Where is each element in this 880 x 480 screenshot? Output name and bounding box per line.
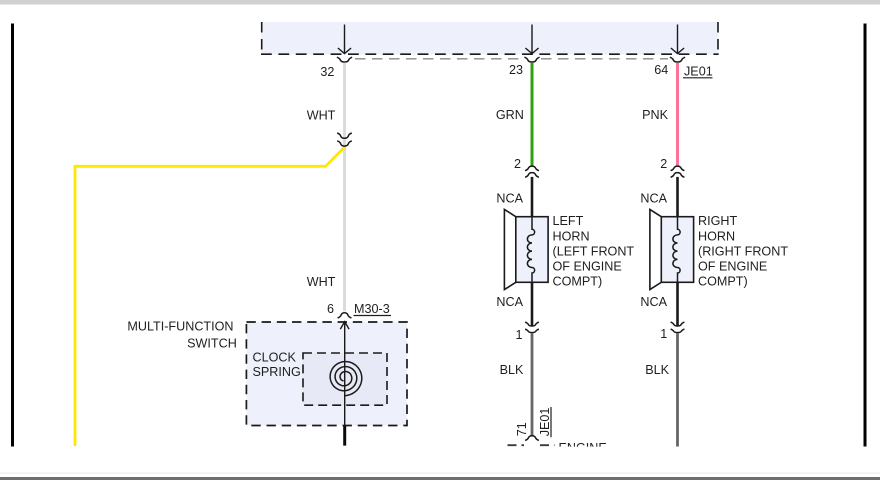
svg-text:PNK: PNK [642,108,668,122]
svg-text:NCA: NCA [496,295,523,309]
svg-text:ENGINE: ENGINE [559,441,607,455]
svg-text:NCA: NCA [496,191,523,205]
svg-text:71: 71 [515,422,529,436]
svg-text:BLK: BLK [500,363,524,377]
svg-text:BLK: BLK [645,363,669,377]
svg-text:M30-3: M30-3 [354,302,390,316]
svg-text:NCA: NCA [640,191,667,205]
svg-text:JE01: JE01 [684,65,713,79]
svg-text:(RIGHT FRONT: (RIGHT FRONT [698,244,788,258]
svg-text:MULTI-FUNCTION: MULTI-FUNCTION [127,320,233,334]
svg-text:64: 64 [654,63,668,77]
svg-text:HORN: HORN [698,229,735,243]
svg-text:SPRING: SPRING [253,365,301,379]
svg-text:23: 23 [509,63,523,77]
svg-text:WHT: WHT [307,109,336,123]
svg-text:1: 1 [515,328,522,342]
svg-text:OF ENGINE: OF ENGINE [553,260,622,274]
svg-text:COMPT): COMPT) [553,275,603,289]
svg-text:COMPT): COMPT) [698,275,748,289]
svg-text:2: 2 [660,157,667,171]
svg-text:(LEFT FRONT: (LEFT FRONT [553,244,635,258]
svg-text:6: 6 [327,302,334,316]
svg-text:32: 32 [320,65,334,79]
svg-text:2: 2 [514,157,521,171]
svg-text:1: 1 [660,327,667,341]
svg-text:JE01: JE01 [538,408,552,437]
svg-text:CLOCK: CLOCK [253,351,297,365]
svg-text:LEFT: LEFT [553,214,584,228]
svg-text:OF ENGINE: OF ENGINE [698,260,767,274]
svg-text:GRN: GRN [496,108,524,122]
svg-text:HORN: HORN [553,229,590,243]
svg-text:NCA: NCA [640,295,667,309]
svg-text:WHT: WHT [307,275,336,289]
svg-text:RIGHT: RIGHT [698,214,737,228]
svg-text:SWITCH: SWITCH [187,336,237,350]
